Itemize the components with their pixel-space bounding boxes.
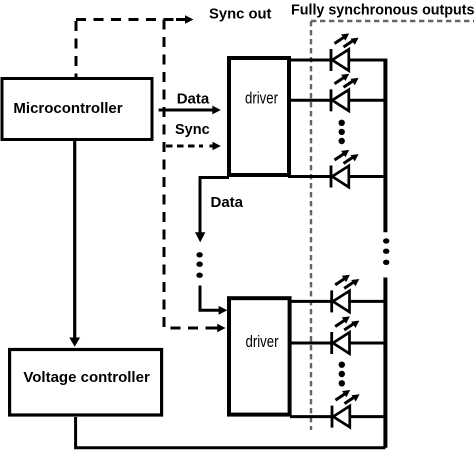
svg-text:driver: driver (245, 333, 278, 352)
svg-text:Data: Data (177, 91, 210, 108)
svg-text:Sync out: Sync out (209, 7, 272, 23)
svg-text:Voltage controller: Voltage controller (23, 369, 150, 386)
svg-text:Data: Data (211, 194, 244, 211)
svg-text:driver: driver (245, 89, 278, 108)
svg-text:Fully synchronous outputs: Fully synchronous outputs (291, 3, 474, 19)
svg-text:Microcontroller: Microcontroller (13, 100, 122, 117)
svg-text:Sync: Sync (175, 122, 210, 138)
